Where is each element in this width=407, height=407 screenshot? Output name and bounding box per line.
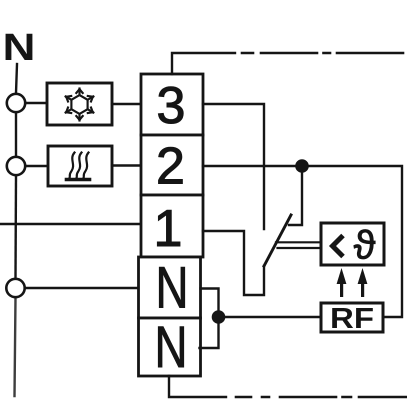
cooling snowflake icon bbox=[66, 89, 94, 121]
terminal 1 bbox=[141, 195, 203, 257]
node terminal circle A bbox=[7, 94, 25, 112]
node junction dot A bbox=[295, 159, 309, 173]
svg-text:N: N bbox=[3, 27, 36, 69]
wire cooling unit to terminal 3 bbox=[112, 103, 141, 105]
svg-text:ϑ: ϑ bbox=[354, 224, 376, 268]
wire terminal 1 to switch pivot bbox=[203, 231, 264, 295]
node terminal circle B bbox=[7, 157, 25, 175]
wire terminal N2 to junction bbox=[200, 323, 219, 348]
wire left edge to terminal 1 bbox=[0, 223, 141, 225]
wire terminal N1 to junction bbox=[201, 289, 219, 312]
signal arrow 1 bbox=[337, 268, 347, 297]
mechanical linkage bbox=[276, 241, 321, 243]
device frame top dash-dot bbox=[242, 52, 403, 55]
wire N bus vertical bbox=[16, 64, 17, 93]
switch lever bbox=[264, 215, 291, 266]
wire to cooling unit bbox=[26, 102, 48, 104]
node junction dot B bbox=[212, 310, 226, 324]
wire to heating unit bbox=[26, 165, 49, 167]
wire terminal 3 to switch contact bbox=[203, 104, 264, 229]
thermostat less-than symbol bbox=[333, 236, 344, 257]
node terminal circle C bbox=[6, 279, 24, 297]
heating unit box bbox=[48, 146, 112, 186]
thermostat box U1 bbox=[321, 223, 384, 265]
svg-text:N: N bbox=[156, 256, 189, 321]
svg-text:1: 1 bbox=[154, 200, 183, 258]
receiver box RF bbox=[321, 303, 383, 332]
wire junction to switch contact bbox=[289, 172, 302, 225]
terminal N1 bbox=[139, 257, 201, 318]
wire device frame bottom lead bbox=[169, 376, 226, 397]
wire device frame top lead bbox=[172, 53, 235, 74]
svg-text:RF: RF bbox=[330, 303, 374, 335]
heating waves icon bbox=[67, 153, 90, 180]
svg-text:2: 2 bbox=[156, 138, 185, 196]
svg-text:3: 3 bbox=[157, 77, 186, 135]
terminal N2 bbox=[139, 318, 201, 376]
wire circle C to terminal N1 bbox=[25, 287, 139, 289]
terminal 2 bbox=[141, 135, 203, 195]
device frame bottom dash-dot bbox=[236, 396, 407, 399]
cooling unit box bbox=[47, 83, 112, 125]
wire heating unit to terminal 2 bbox=[112, 164, 141, 166]
terminal 3 bbox=[141, 74, 203, 135]
svg-text:N: N bbox=[155, 315, 188, 380]
signal arrow 2 bbox=[358, 268, 368, 297]
wire terminal 2 to right rail bbox=[203, 166, 402, 317]
wire junction to RF box bbox=[225, 316, 321, 318]
